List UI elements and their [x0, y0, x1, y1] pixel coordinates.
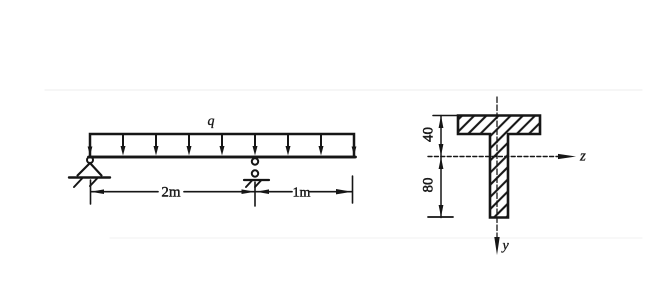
- roller support B circle lower: [252, 170, 258, 176]
- svg-text:80: 80: [421, 178, 437, 193]
- extension line left: [90, 180, 92, 204]
- extension line middle: [254, 182, 256, 206]
- dimension arrow 1m right: [336, 189, 352, 194]
- load divider arrow 1: [121, 135, 126, 156]
- dim arrow down to z axis: [439, 144, 444, 156]
- roller support B hatch: [246, 181, 261, 188]
- pin support A ground line: [69, 176, 110, 178]
- tick at flange top: [433, 115, 457, 117]
- dimension line 1m left part: [255, 191, 292, 193]
- load arrow left edge: [88, 147, 93, 156]
- y axis centerline: [496, 97, 498, 238]
- z axis dashed line: [428, 156, 560, 158]
- z axis arrow: [558, 154, 576, 159]
- pin support A circle: [87, 157, 93, 163]
- dim arrow down at web bottom: [439, 205, 444, 217]
- pin support A hatch: [74, 179, 97, 188]
- extension line right: [352, 176, 354, 203]
- dimension line 2m left part: [91, 191, 158, 193]
- svg-text:40: 40: [421, 127, 437, 142]
- load divider arrow 6: [286, 135, 291, 156]
- tick at web bottom: [428, 216, 453, 218]
- roller support B circle upper: [252, 158, 258, 164]
- load divider arrow 4: [220, 135, 225, 156]
- distributed load box: [90, 134, 354, 157]
- section dimension line vertical: [440, 116, 442, 218]
- dim arrow up at flange top: [439, 116, 444, 129]
- svg-text:y: y: [501, 239, 510, 254]
- dim arrow up from z axis: [439, 157, 444, 169]
- load divider arrow 5: [253, 135, 258, 156]
- faint scan line bottom: [110, 237, 642, 239]
- y axis arrow: [494, 237, 499, 255]
- dimension arrow 1m left: [256, 189, 269, 194]
- load divider arrow 2: [154, 135, 159, 156]
- faint scan line top: [45, 89, 642, 91]
- load divider arrow 7: [319, 135, 324, 156]
- dimension line 2m right part: [184, 191, 255, 193]
- dimension arrow 2m left: [91, 189, 105, 194]
- roller support B ground line: [244, 179, 269, 181]
- dimension arrow 2m right: [242, 189, 256, 194]
- load divider arrow 3: [187, 135, 192, 156]
- T-section body with hatching: [458, 116, 540, 218]
- svg-text:1m: 1m: [293, 186, 311, 201]
- beam line: [89, 156, 356, 159]
- load arrow right edge: [352, 147, 357, 156]
- pin support A triangle: [78, 163, 102, 176]
- svg-text:z: z: [579, 149, 586, 165]
- dimension line 1m right part: [310, 191, 352, 193]
- svg-text:q: q: [208, 114, 215, 129]
- svg-text:2m: 2m: [161, 185, 181, 201]
